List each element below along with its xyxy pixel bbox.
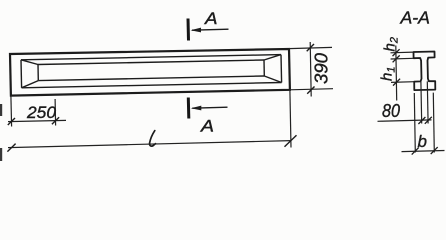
scan artifact left edge upper [0,104,2,116]
dim h: tick at lower flange top [393,79,400,86]
beam outer outline [10,49,290,96]
dim b: left extension line [414,93,415,153]
recess outline bottom line [22,83,282,88]
dim 250: extension line at x=55 [54,99,57,126]
dim h: extension line top [391,51,414,54]
scan artifact left edge lower [0,148,2,161]
section mark top: arrowhead [191,28,202,33]
recess floor bottom line [38,76,264,81]
section mark top: arrow shaft [192,29,229,30]
left trapezoid bottom slope [22,81,39,88]
right trapezoid bottom slope [264,76,281,83]
dim 390: tick top [307,44,314,51]
dim l: tick left [7,144,15,152]
dim 390: dimension line [310,42,311,97]
left trapezoid short vertical [37,65,39,81]
dim b: tick left [412,148,419,155]
dim b: right extension line [433,93,434,153]
dim b: dimension line [402,151,445,152]
dim 80: web left extension line [420,82,423,124]
dim 80: dimension line [378,120,432,121]
dim 390: bottom extension line [290,89,333,90]
dim b: tick right [431,147,438,154]
dim 250: tick right [52,117,59,124]
dim 390: top extension line [289,47,332,48]
svg-text:A: A [204,10,218,28]
section mark bottom: thick line [187,98,191,119]
dim 250: extension line at x=10 [10,96,13,127]
svg-text:390: 390 [312,53,332,84]
right trapezoid top slope [264,55,281,60]
dim l: script letter l [150,131,156,147]
recess right vertical edge [280,55,283,83]
dim h: extension line middle [391,57,414,60]
dim l: tick right [285,135,297,147]
svg-text:b: b [418,132,427,151]
dim h: vertical dimension line [395,46,398,101]
right trapezoid short vertical [263,60,265,76]
dim h: tick at section top [393,49,400,56]
svg-text:A-A: A-A [399,8,430,28]
recess left vertical edge [20,60,23,88]
dim l: extension line at x=290 [290,90,291,148]
left trapezoid top slope [21,60,38,65]
recess floor top line [38,60,264,65]
dim 80: web right extension line [426,81,429,123]
dim 80: tick left [418,117,425,124]
dim 250: dimension line [8,120,66,121]
svg-text:80: 80 [382,101,400,121]
svg-text:250: 250 [26,103,57,122]
dim l: dimension line [8,141,291,148]
dim h: extension line lower [391,81,414,84]
section mark top: thick line [187,19,191,41]
I-section outline [414,52,436,91]
section mark bottom: arrowhead [191,106,202,111]
section mark bottom: arrow shaft [192,107,227,108]
recess outline top line [21,55,281,60]
dim 250: tick left [8,118,15,125]
dim h: tick at flange bottom [393,55,400,62]
dim 80: tick right [425,117,432,124]
dim 390: tick bottom [307,87,314,94]
svg-text:A: A [200,117,214,135]
